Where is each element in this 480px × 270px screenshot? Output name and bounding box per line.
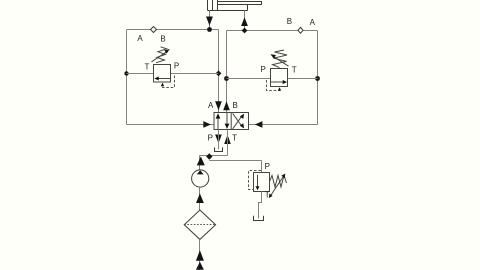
svg-text:P: P — [265, 162, 270, 171]
svg-text:T: T — [265, 190, 270, 199]
flow arrow up at valve port T (from pump) — [224, 135, 231, 144]
DV1 right square crossed path arrow up-right — [233, 114, 244, 129]
pump P1 circle — [192, 170, 209, 187]
quick coupling diamond left — [151, 27, 157, 33]
CB1 adjustment arrow — [152, 49, 170, 62]
svg-text:T: T — [232, 133, 237, 142]
DV1 center divider — [230, 113, 232, 130]
svg-text:A: A — [137, 34, 143, 43]
wire pump output vertical — [199, 156, 201, 171]
CB2 spring — [273, 50, 288, 68]
RV1 adjustment arrow — [269, 174, 286, 198]
DV1 left square path P to A with up arrow — [216, 113, 221, 129]
flow arrow left into valve right side — [255, 121, 263, 128]
junction dot at cylinder left port — [207, 27, 212, 32]
wire pump to valve horizontal — [200, 155, 228, 157]
wire relief valve T down — [259, 192, 262, 219]
DV1 left square path B to T with down arrow — [225, 113, 230, 129]
svg-text:B: B — [160, 34, 165, 43]
CB2 adjustment arrow — [270, 54, 288, 66]
filter F1 element dashed — [184, 224, 215, 226]
flow arrow down on cylinder left port — [206, 17, 213, 26]
svg-text:B: B — [233, 101, 238, 110]
wire relief valve P drop — [261, 161, 263, 173]
CB1 spring — [156, 47, 167, 63]
svg-text:P: P — [208, 133, 213, 142]
wire cylinder left port down — [209, 11, 211, 30]
wire left top horizontal (node A side) — [127, 29, 219, 31]
pump P1 flow triangle — [197, 170, 204, 174]
wire node A vertical — [218, 30, 220, 113]
relief valve RV1 body — [254, 173, 270, 192]
wire cylinder right port down — [244, 11, 246, 31]
svg-text:A: A — [208, 101, 214, 110]
CB1 pilot arrow into body — [161, 83, 164, 87]
flow arrow up on cylinder right port — [241, 17, 248, 26]
flow arrow right into valve left side — [203, 121, 211, 128]
directional valve DV1 body — [214, 113, 249, 130]
wire CB-R P port line — [227, 78, 271, 80]
wire valve P port down to tank — [218, 130, 220, 150]
svg-text:T: T — [144, 63, 149, 72]
CB2 pilot dashed line — [267, 80, 280, 91]
RV1 spring — [270, 175, 287, 187]
wire right inlet to valve — [249, 124, 318, 126]
svg-text:T: T — [292, 66, 297, 75]
svg-text:P: P — [174, 62, 179, 71]
flow arrow up at valve port B — [223, 101, 230, 110]
wire CB-L P port line — [171, 73, 219, 75]
junction diamond pump line — [206, 153, 212, 159]
RV1 internal flow path arrow (down) — [256, 175, 260, 190]
cylinder C1 rod — [218, 2, 262, 5]
wire left inlet to valve — [127, 124, 215, 126]
junction dot left outer / CB-L T line — [124, 71, 128, 75]
flow arrow down at valve port P (to tank) — [215, 135, 222, 144]
flow arrow down at valve port A — [215, 101, 222, 110]
flow arrow up pump output — [197, 156, 205, 165]
junction dot right outer / CB-R T line — [315, 76, 320, 81]
wire branch to relief valve — [209, 160, 261, 162]
wire CB-R T port line — [288, 78, 318, 80]
svg-text:B: B — [287, 17, 292, 26]
counterbalance valve CB1 body — [154, 65, 171, 83]
junction diamond at cylinder right port — [242, 28, 248, 34]
filter F1 diamond — [184, 210, 215, 239]
wire left outer vertical — [126, 30, 128, 125]
junction dot on B line (CB-R P) — [224, 76, 229, 81]
cylinder C1 piston — [213, 0, 218, 11]
flow arrow up at bottom edge — [196, 262, 204, 270]
CB1 internal flow path arrow (to T) — [154, 76, 170, 80]
wire filter to bottom edge — [199, 239, 201, 270]
wire node B vertical — [226, 31, 228, 113]
wire pump suction — [199, 187, 201, 210]
cylinder C1 body — [208, 0, 248, 11]
wire CB-L T port line — [127, 73, 154, 75]
CB1 pilot dashed line — [163, 76, 175, 88]
DV1 right square crossed path arrow down-right — [233, 113, 244, 128]
svg-text:P: P — [261, 65, 266, 74]
flow arrow up below filter — [196, 250, 204, 261]
tank symbol under relief valve — [254, 216, 264, 221]
wire right top horizontal (node B side) — [227, 30, 318, 32]
wire right outer vertical — [317, 31, 319, 125]
quick coupling diamond right — [298, 27, 303, 33]
CB2 pilot arrow into body — [278, 87, 281, 90]
wire valve T port down — [227, 130, 229, 156]
counterbalance valve CB2 body — [271, 69, 288, 87]
svg-text:A: A — [310, 18, 316, 27]
flow arrow up pump suction — [196, 193, 204, 203]
CB2 internal flow path arrow (to T) — [271, 80, 288, 84]
RV1 pilot dashed line — [249, 171, 262, 190]
tank symbol under valve P — [215, 147, 223, 151]
junction diamond on A line (CB-L P) — [216, 71, 222, 77]
